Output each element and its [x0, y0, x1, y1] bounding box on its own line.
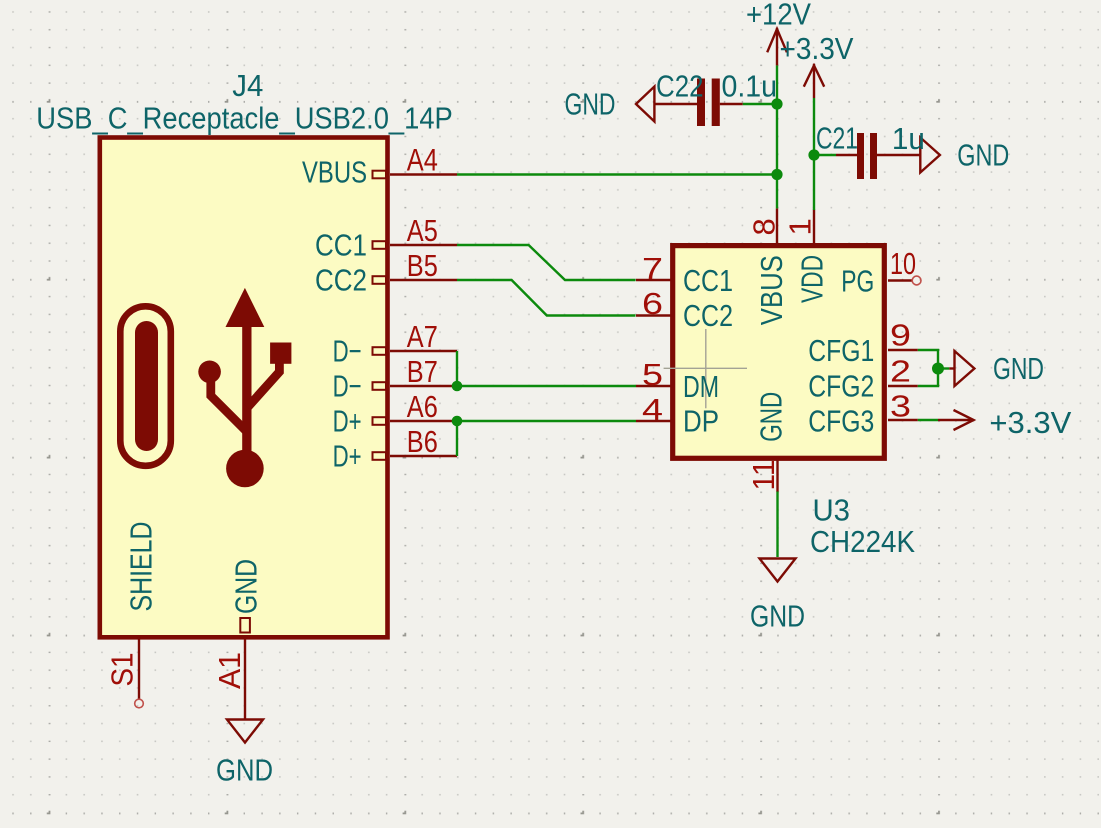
- svg-text:A4: A4: [407, 142, 438, 178]
- svg-text:0.1u: 0.1u: [722, 68, 778, 103]
- svg-text:VBUS: VBUS: [754, 255, 789, 325]
- svg-text:+12V: +12V: [746, 0, 811, 32]
- svg-text:2: 2: [890, 354, 911, 389]
- svg-text:GND: GND: [216, 753, 273, 788]
- svg-text:GND: GND: [750, 599, 805, 634]
- svg-text:GND: GND: [993, 351, 1044, 386]
- svg-text:VDD: VDD: [795, 255, 830, 303]
- svg-text:D+: D+: [333, 438, 362, 473]
- svg-text:D−: D−: [333, 333, 362, 368]
- svg-text:8: 8: [747, 218, 782, 235]
- svg-text:C22: C22: [656, 68, 704, 103]
- svg-text:4: 4: [642, 392, 663, 427]
- svg-text:11: 11: [746, 460, 781, 491]
- svg-text:GND: GND: [565, 86, 616, 121]
- svg-text:1u: 1u: [892, 121, 925, 156]
- svg-text:SHIELD: SHIELD: [124, 522, 159, 612]
- svg-text:GND: GND: [753, 392, 788, 442]
- svg-text:CH224K: CH224K: [810, 524, 915, 559]
- svg-text:B5: B5: [407, 248, 438, 283]
- svg-text:+3.3V: +3.3V: [780, 31, 854, 66]
- svg-text:10: 10: [890, 246, 916, 281]
- svg-text:A1: A1: [212, 652, 247, 689]
- svg-text:A7: A7: [407, 319, 438, 354]
- svg-text:CC2: CC2: [315, 263, 367, 298]
- svg-text:1: 1: [783, 218, 818, 235]
- svg-text:DP: DP: [683, 403, 719, 438]
- svg-text:B7: B7: [407, 354, 438, 389]
- svg-text:J4: J4: [232, 68, 263, 103]
- svg-text:CC2: CC2: [683, 298, 733, 333]
- svg-text:D−: D−: [333, 368, 362, 403]
- svg-text:GND: GND: [229, 559, 264, 614]
- svg-text:GND: GND: [957, 138, 1009, 173]
- svg-text:PG: PG: [841, 263, 874, 298]
- svg-text:S1: S1: [105, 653, 140, 687]
- svg-text:3: 3: [890, 389, 911, 424]
- svg-text:7: 7: [642, 251, 663, 286]
- svg-text:USB_C_Receptacle_USB2.0_14P: USB_C_Receptacle_USB2.0_14P: [36, 101, 453, 136]
- svg-text:CFG2: CFG2: [808, 369, 874, 404]
- svg-text:VBUS: VBUS: [302, 155, 367, 190]
- svg-text:C21: C21: [816, 120, 858, 155]
- svg-text:DM: DM: [683, 369, 719, 404]
- svg-text:B6: B6: [407, 424, 438, 459]
- svg-text:CC1: CC1: [315, 228, 367, 263]
- svg-text:5: 5: [642, 357, 663, 392]
- svg-text:U3: U3: [813, 493, 851, 528]
- svg-text:9: 9: [890, 318, 911, 353]
- svg-text:+3.3V: +3.3V: [989, 405, 1071, 440]
- svg-text:CFG1: CFG1: [808, 333, 874, 368]
- svg-text:A6: A6: [407, 389, 438, 424]
- svg-text:CC1: CC1: [683, 263, 733, 298]
- svg-text:6: 6: [642, 286, 663, 321]
- svg-text:D+: D+: [333, 403, 362, 438]
- svg-text:A5: A5: [407, 213, 438, 248]
- svg-text:CFG3: CFG3: [808, 403, 874, 438]
